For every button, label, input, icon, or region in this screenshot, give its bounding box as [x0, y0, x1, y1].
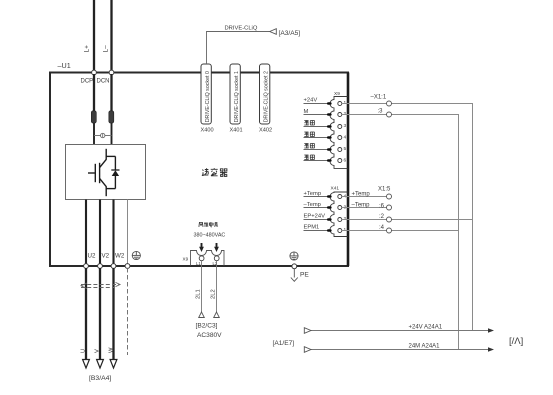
svg-text:DRIVE-CLiQ socket 2: DRIVE-CLiQ socket 2	[263, 71, 269, 122]
svg-text:DRIVE-CLiQ socket 0: DRIVE-CLiQ socket 0	[205, 71, 211, 122]
svg-text:[A1/E7]: [A1/E7]	[273, 340, 295, 347]
svg-text:+24V A24A1: +24V A24A1	[409, 325, 443, 331]
wire EP+24V to X1:2 joining +24V feeder	[342, 219, 473, 221]
off-page triangle to [A3/A5]	[270, 29, 277, 35]
motor cable U	[85, 268, 87, 360]
earth symbol at W2 terminal	[132, 251, 140, 259]
svg-text:M: M	[304, 109, 309, 115]
terminal -X1:1	[387, 101, 392, 106]
svg-text:L1: L1	[196, 261, 201, 266]
X41 signal connector body	[330, 192, 348, 237]
svg-text:6: 6	[344, 158, 347, 164]
arrowhead W	[110, 360, 117, 369]
svg-text:380~480VAC: 380~480VAC	[194, 233, 226, 239]
svg-text::2: :2	[379, 214, 385, 220]
wire L+ (DC bus positive, vertical)	[93, 0, 95, 112]
cable shield dashed line	[81, 285, 120, 288]
inverter power block inner box	[66, 145, 146, 200]
DRIVE-CLiQ socket 0 (X400)	[201, 64, 211, 124]
wire 2L1	[201, 261, 203, 312]
svg-text:X1:5: X1:5	[378, 187, 391, 193]
fan pin L2	[214, 256, 219, 261]
PE drop wire	[293, 269, 295, 278]
wire PE internal (thin)	[127, 200, 129, 267]
svg-text:X400: X400	[201, 128, 214, 134]
terminal X1:2	[387, 217, 392, 222]
X9 pin 5 wire reserved 预留	[304, 149, 331, 151]
terminal X1:3	[387, 112, 392, 117]
terminal X1:5	[387, 194, 392, 199]
X9 signal connector body	[330, 97, 348, 169]
X41 pin 3 wire -Temp	[304, 207, 331, 209]
svg-text:PE: PE	[300, 272, 309, 279]
svg-text:2L2: 2L2	[211, 289, 217, 299]
shield arrow right	[116, 282, 121, 286]
svg-text:AC380V: AC380V	[197, 332, 222, 339]
svg-text:DRIVE-CLiQ: DRIVE-CLiQ	[225, 26, 258, 32]
fan supply label 风机电源	[199, 222, 218, 227]
DC link voltage sense tap with indicator	[94, 133, 112, 137]
DRIVE-CLiQ socket 1 (X401)	[230, 64, 240, 124]
svg-text:DRIVE-CLiQ socket 1: DRIVE-CLiQ socket 1	[234, 71, 240, 122]
svg-text:V2: V2	[102, 253, 110, 260]
svg-text:–Temp: –Temp	[304, 202, 321, 208]
motor cable V	[99, 268, 101, 360]
svg-text:L+: L+	[84, 45, 91, 53]
svg-text:U2: U2	[88, 253, 96, 260]
terminal U2	[84, 264, 89, 269]
svg-text:–Temp: –Temp	[352, 203, 371, 209]
svg-text:X402: X402	[259, 128, 272, 134]
svg-text:[B3/A4]: [B3/A4]	[89, 375, 111, 382]
svg-text:+Temp: +Temp	[304, 191, 322, 197]
svg-text:W: W	[108, 347, 114, 353]
svg-text:X41: X41	[331, 186, 340, 192]
X9 pin 6 wire reserved 预留	[304, 160, 331, 162]
svg-text:4: 4	[344, 135, 347, 141]
+24V A24A1 rail	[311, 330, 490, 332]
source triangle 2L2	[214, 312, 220, 318]
wire EPM1 to X1:4 joining 24M feeder	[342, 230, 459, 232]
svg-text::3: :3	[378, 109, 384, 115]
terminal PE on bottom edge	[292, 264, 297, 269]
arrowhead V	[97, 360, 104, 369]
svg-text:5: 5	[344, 146, 347, 152]
terminal DCN	[109, 70, 114, 75]
svg-text:EPM1: EPM1	[304, 225, 320, 231]
DRIVE-CLiQ socket 2 (X402)	[260, 64, 270, 124]
svg-text:+Temp: +Temp	[352, 192, 371, 198]
svg-text:+24V: +24V	[304, 98, 318, 104]
IGBT Q1 with freewheeling diode	[88, 149, 115, 196]
svg-text:L2: L2	[213, 261, 218, 266]
PE earth symbol above terminal	[290, 252, 298, 260]
svg-text:–X1:1: –X1:1	[371, 95, 387, 101]
rail source triangle	[304, 328, 311, 334]
wire W2 phase	[112, 200, 114, 267]
fuse F1 on L+	[93, 74, 95, 144]
terminal X1:6	[387, 205, 392, 210]
wire DRIVE-CLiQ uplink	[207, 32, 270, 65]
terminal DCP	[92, 70, 97, 75]
fan pin L1	[199, 256, 204, 261]
wire +Temp to X1:5	[342, 196, 387, 198]
svg-text:–U1: –U1	[58, 61, 71, 70]
X9 pin 2 wire M	[304, 114, 331, 116]
diode D1 (triangle + cathode bar)	[111, 170, 119, 176]
X9 pin 4 wire reserved 预留	[304, 137, 331, 139]
svg-text:3: 3	[344, 123, 347, 129]
svg-text::4: :4	[379, 225, 385, 231]
svg-text:EP+24V: EP+24V	[304, 214, 326, 220]
X41 pin 1 wire EPM1	[304, 230, 331, 232]
svg-text:24M A24A1: 24M A24A1	[409, 344, 441, 350]
svg-text:V: V	[95, 349, 101, 353]
shield drain dashed vertical to PE	[127, 268, 129, 355]
arrowhead U	[83, 360, 90, 369]
rail arrowhead	[488, 347, 494, 352]
source triangle 2L1	[199, 312, 205, 318]
svg-text:2L1: 2L1	[196, 289, 202, 299]
rail source triangle	[304, 347, 311, 353]
svg-text:[B2/C3]: [B2/C3]	[196, 323, 218, 330]
24M A24A1 rail	[311, 349, 490, 351]
svg-text:DCN: DCN	[97, 79, 110, 85]
PE arrow	[291, 278, 298, 282]
fan terminal X9 connector body	[191, 251, 225, 266]
wire 2L2	[216, 261, 218, 312]
X41 pin 4 wire +Temp	[304, 196, 331, 198]
svg-text:[/Λ]: [/Λ]	[509, 336, 523, 347]
X41 pin 2 wire EP+24V	[304, 219, 331, 221]
svg-text:U: U	[80, 349, 86, 353]
wire V2 phase	[99, 200, 101, 267]
svg-text:X401: X401	[230, 128, 243, 134]
fan feed arrow L1	[199, 243, 204, 252]
svg-text:W2: W2	[115, 253, 125, 260]
fan feed arrow L2	[214, 243, 219, 252]
terminal X1:4	[387, 228, 392, 233]
wire X9:1 to -X1:1 and down to +24V rail	[342, 104, 473, 331]
terminal W2	[111, 264, 116, 269]
label 逆变器 (inverter)	[202, 168, 227, 176]
svg-text::6: :6	[379, 204, 385, 210]
motor cable W	[112, 268, 114, 360]
X9 pin 1 wire +24V	[304, 103, 331, 105]
module U1 enclosure box	[50, 73, 348, 267]
svg-text:DCP: DCP	[81, 79, 94, 85]
X9 pin 3 wire reserved 预留	[304, 126, 331, 128]
wire -Temp to X1:6	[342, 207, 387, 209]
svg-text:X9: X9	[183, 257, 189, 262]
terminal V2	[98, 264, 103, 269]
svg-text:X9: X9	[334, 91, 340, 97]
rail arrowhead	[488, 328, 494, 333]
terminal PE (motor side)	[125, 264, 130, 269]
wire U2 phase (inner box to terminal)	[85, 200, 87, 267]
svg-text:[A3/A5]: [A3/A5]	[279, 30, 301, 37]
shield arrow left	[81, 283, 87, 289]
fuse F2 on L-	[111, 74, 113, 144]
wire L- (DC bus negative, vertical)	[110, 0, 112, 112]
svg-text:L–: L–	[103, 45, 110, 53]
wire X9:2 to X1:3 and down to 24M rail	[342, 115, 459, 350]
